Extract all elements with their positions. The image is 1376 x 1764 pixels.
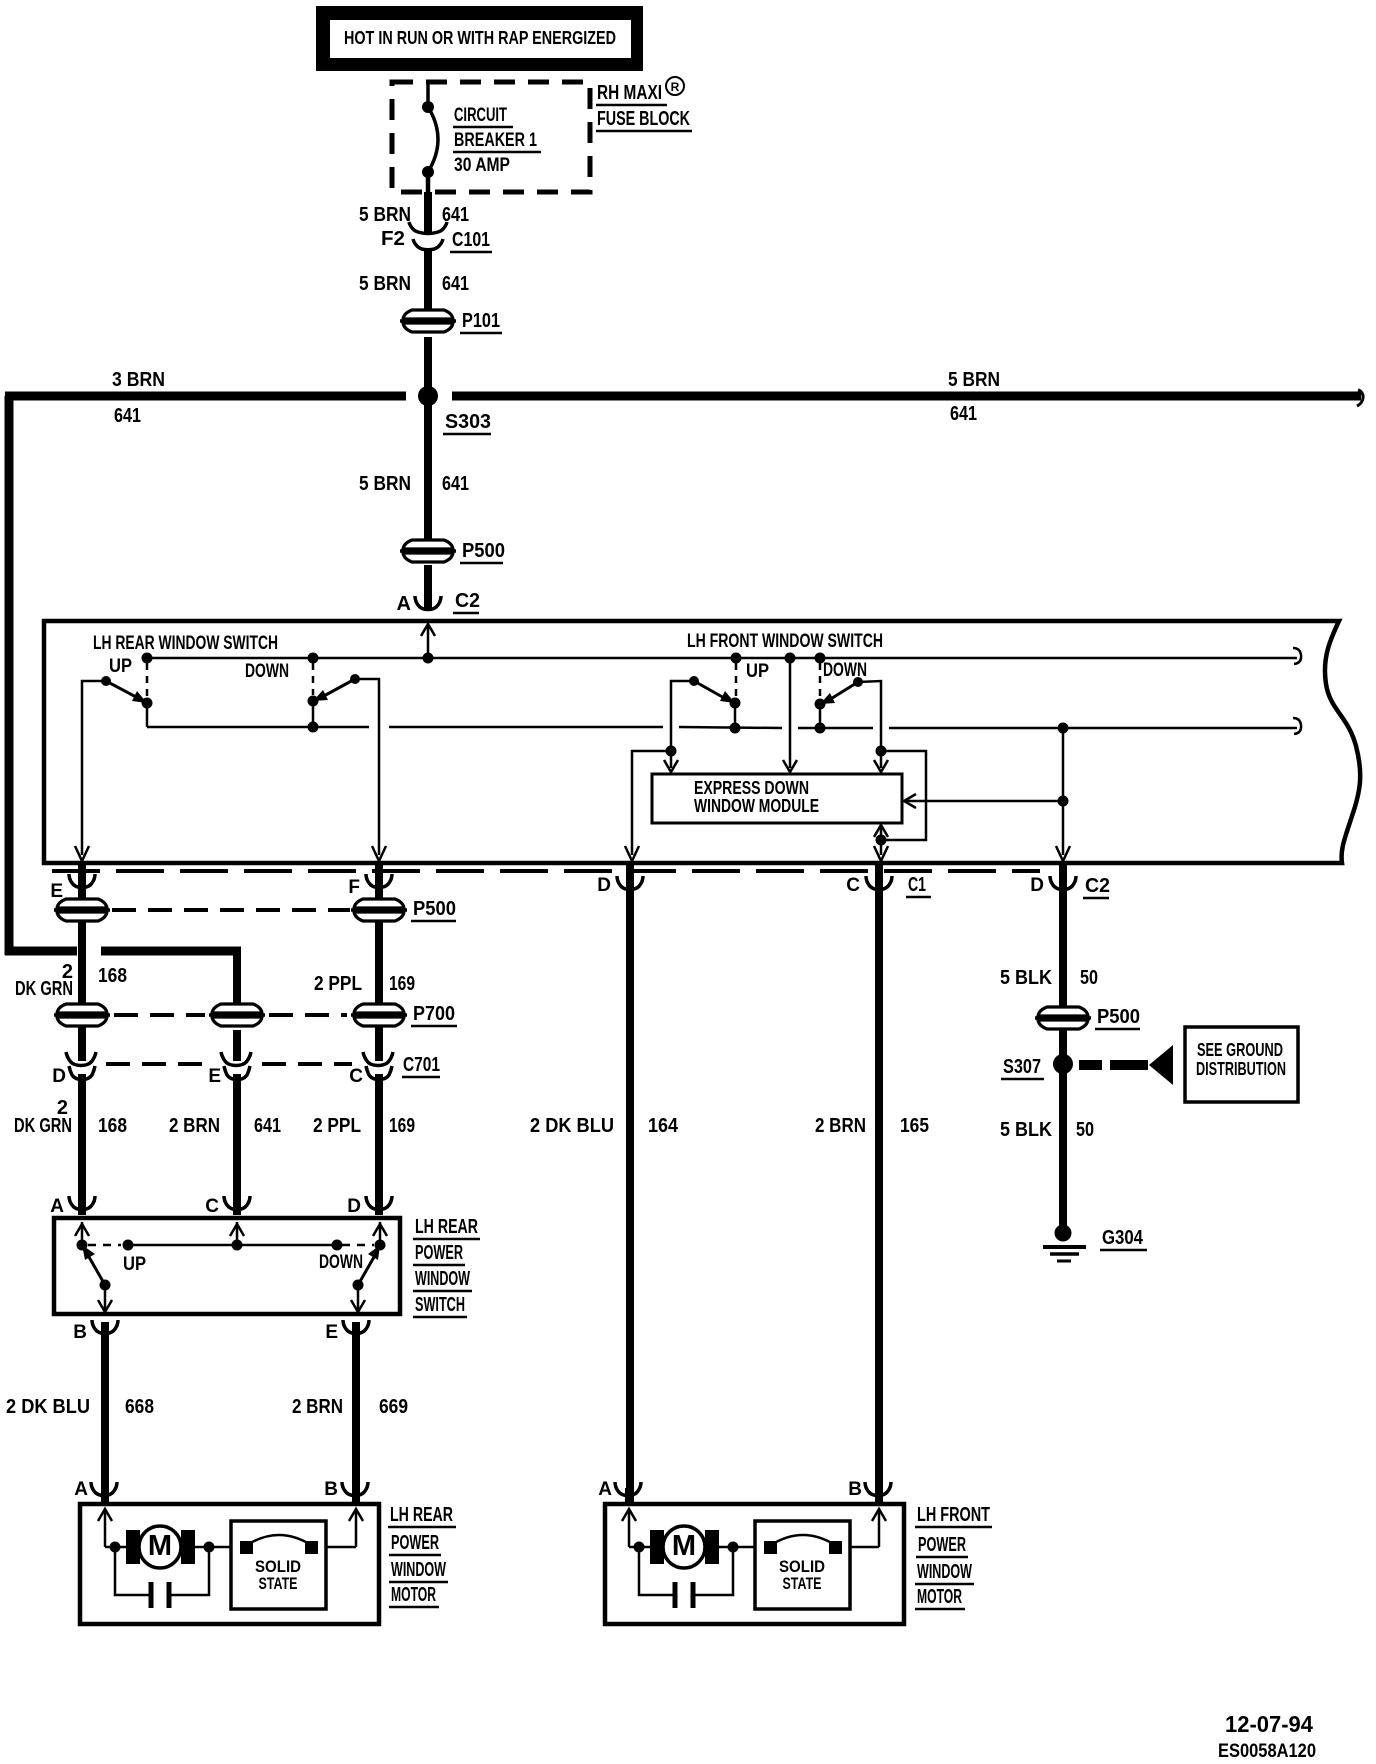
svg-text:POWER: POWER	[918, 1534, 966, 1556]
ground G304	[1055, 1225, 1072, 1242]
connector C2 pin A cup	[415, 596, 441, 610]
svg-text:5 BLK: 5 BLK	[1000, 967, 1052, 989]
node front motor left	[634, 1542, 645, 1553]
svg-text:164: 164	[648, 1115, 679, 1137]
grommet P500	[400, 540, 456, 562]
svg-text:ES0058A120: ES0058A120	[1218, 1741, 1316, 1762]
wire module bottom to C output	[880, 840, 883, 855]
wire solid state to B entry front	[850, 1546, 879, 1549]
svg-text:2 BRN: 2 BRN	[292, 1396, 343, 1418]
svg-text:HOT IN RUN OR WITH RAP ENERGIZ: HOT IN RUN OR WITH RAP ENERGIZED	[344, 28, 616, 48]
wire break hook lower bus	[1293, 718, 1301, 734]
svg-text:E: E	[50, 881, 63, 902]
svg-text:A: A	[50, 1196, 64, 1217]
LH rear window switch UP contact	[82, 656, 153, 855]
entry arrow C	[236, 1222, 239, 1245]
see ground distribution box	[1185, 1027, 1298, 1102]
svg-text:5 BRN: 5 BRN	[359, 473, 411, 495]
connector cup C C1 at box exit	[866, 876, 892, 890]
svg-text:M: M	[148, 1530, 172, 1562]
svg-text:168: 168	[98, 965, 127, 987]
svg-text:50: 50	[1076, 1119, 1094, 1141]
svg-text:641: 641	[254, 1115, 281, 1137]
svg-text:3 BRN: 3 BRN	[112, 369, 165, 391]
svg-text:POWER: POWER	[391, 1532, 439, 1554]
bus wire upper (feed bus)	[147, 657, 1297, 660]
svg-text:DOWN: DOWN	[319, 1252, 363, 1273]
node rear motor left	[110, 1542, 121, 1553]
svg-text:F2: F2	[381, 228, 405, 250]
svg-text:168: 168	[98, 1115, 127, 1137]
svg-text:50: 50	[1080, 967, 1098, 989]
wire solid state to B entry rear	[326, 1546, 356, 1549]
motor M front: armature circle	[663, 1526, 705, 1568]
connector cup A front motor	[615, 1482, 641, 1496]
entry arrow D	[379, 1222, 382, 1245]
dashed connector line below box	[52, 869, 1040, 873]
dashed line P500 row	[112, 908, 350, 912]
connector cup E below rear switch	[343, 1320, 369, 1334]
front motor label	[915, 1504, 992, 1609]
svg-text:C2: C2	[1085, 875, 1110, 897]
solid state box front	[755, 1521, 850, 1609]
node C contact	[232, 1240, 243, 1251]
LH rear window switch DOWN contact	[245, 661, 379, 855]
node bus to right column	[1058, 723, 1069, 734]
module input arrow right	[874, 760, 888, 772]
svg-text:5 BRN: 5 BRN	[948, 369, 1000, 391]
svg-text:LH REAR WINDOW SWITCH: LH REAR WINDOW SWITCH	[93, 633, 278, 654]
bus wire lower (motor bus)	[147, 703, 1297, 728]
svg-text:A: A	[397, 593, 411, 615]
svg-text:F: F	[348, 877, 360, 898]
svg-text:30 AMP: 30 AMP	[454, 155, 510, 176]
wire branch loop right of module	[881, 751, 926, 840]
svg-text:2 DK BLU: 2 DK BLU	[6, 1396, 90, 1418]
wire stubs into rear motor	[101, 1488, 109, 1506]
LH rear power window motor box	[80, 1504, 379, 1624]
svg-text:LH FRONT WINDOW SWITCH: LH FRONT WINDOW SWITCH	[687, 631, 883, 652]
wire D column (164 DK BLU)	[626, 865, 634, 1502]
grommet P500 ground column	[1035, 1007, 1091, 1029]
circuit breaker 1 dashed box	[392, 82, 590, 192]
svg-text:EXPRESS DOWN: EXPRESS DOWN	[694, 778, 809, 798]
svg-text:E: E	[325, 1322, 338, 1343]
node feed-entry	[423, 653, 434, 664]
svg-text:P700: P700	[413, 1003, 455, 1025]
dashed line C701 row	[106, 1062, 352, 1066]
wire right column to C2 output	[1062, 728, 1065, 855]
node right column tee	[1058, 796, 1069, 807]
svg-text:B: B	[848, 1479, 862, 1500]
svg-text:R: R	[671, 80, 680, 94]
module input arrow left	[664, 760, 678, 772]
svg-text:E: E	[208, 1066, 221, 1087]
svg-text:2 BRN: 2 BRN	[815, 1115, 866, 1137]
wire stubs into front motor	[625, 1488, 633, 1506]
svg-text:WINDOW: WINDOW	[917, 1561, 972, 1583]
connector cup C rear switch	[224, 1196, 250, 1210]
svg-text:165: 165	[900, 1115, 929, 1137]
svg-text:P500: P500	[413, 898, 456, 920]
svg-text:G304: G304	[1102, 1227, 1144, 1249]
splice S303	[418, 386, 438, 406]
connector cup D at box exit	[617, 876, 643, 890]
wire 641 left branch down	[5, 396, 14, 955]
grommet P101	[400, 310, 456, 332]
svg-text:12-07-94: 12-07-94	[1225, 1711, 1313, 1737]
connector C701 pin C lower cup	[366, 1066, 392, 1080]
svg-text:669: 669	[379, 1396, 408, 1418]
svg-text:2 BRN: 2 BRN	[169, 1115, 220, 1137]
wire branch to D output	[632, 751, 671, 855]
exit arrow C	[874, 846, 888, 861]
node bus left	[123, 1240, 134, 1251]
connector cup B front motor	[865, 1482, 891, 1496]
svg-text:169: 169	[389, 1115, 415, 1137]
svg-text:641: 641	[950, 403, 977, 425]
svg-text:UP: UP	[109, 656, 132, 677]
connector C701 pin E lower cup	[224, 1066, 250, 1080]
svg-text:C2: C2	[455, 590, 480, 612]
node feed-rear-up	[142, 653, 153, 664]
grommet P700 E column	[54, 1004, 110, 1026]
connector cup B below rear switch	[92, 1320, 118, 1334]
express down window module U1	[652, 774, 902, 823]
grommet P500 E column	[54, 899, 110, 921]
motor M front: brushes	[650, 1530, 664, 1564]
svg-text:P500: P500	[462, 540, 505, 562]
entry arrow A	[81, 1222, 84, 1245]
svg-text:STATE: STATE	[783, 1574, 822, 1593]
connector cup D C2 at box exit	[1050, 876, 1076, 890]
svg-text:A: A	[598, 1479, 612, 1500]
svg-text:5 BRN: 5 BRN	[359, 273, 411, 295]
wire motor to solid state	[195, 1546, 232, 1549]
grommet P700 F column	[351, 1004, 407, 1026]
svg-text:5 BRN: 5 BRN	[359, 204, 411, 226]
wire 641 left branch across	[5, 947, 77, 956]
wire motor to solid state front	[719, 1546, 756, 1549]
svg-text:C: C	[349, 1066, 363, 1087]
solid state terminals rear	[240, 1541, 253, 1554]
rear switch label	[413, 1216, 480, 1317]
svg-text:641: 641	[442, 273, 469, 295]
svg-text:DISTRIBUTION: DISTRIBUTION	[1196, 1059, 1286, 1079]
svg-text:UP: UP	[123, 1254, 146, 1275]
exit arrow D C2	[1056, 846, 1070, 861]
connector cup B rear motor	[342, 1482, 368, 1496]
svg-text:D: D	[597, 875, 611, 896]
node D contact	[375, 1240, 386, 1251]
svg-text:DK GRN: DK GRN	[15, 978, 73, 1000]
wire 641 breaker to C101	[424, 192, 432, 234]
front motor A entry wire	[628, 1509, 631, 1547]
svg-text:RH MAXI: RH MAXI	[597, 82, 662, 104]
svg-text:POWER: POWER	[415, 1242, 463, 1264]
svg-text:169: 169	[389, 973, 415, 995]
circuit breaker 1 element	[422, 82, 438, 194]
exit arrow D	[625, 846, 639, 861]
svg-text:CIRCUIT: CIRCUIT	[454, 105, 507, 126]
connector C101 pin F2	[409, 222, 447, 250]
capacitor front motor	[639, 1547, 673, 1595]
node feed-module	[785, 653, 796, 664]
dashed line P700 row	[114, 1013, 347, 1017]
svg-text:B: B	[73, 1322, 87, 1343]
svg-text:DK GRN: DK GRN	[14, 1115, 72, 1137]
node feed-front-down	[815, 653, 826, 664]
connector C701 pin E upper cup	[221, 1052, 251, 1066]
svg-text:2 PPL: 2 PPL	[313, 1115, 361, 1137]
svg-text:2 DK BLU: 2 DK BLU	[530, 1115, 614, 1137]
RH MAXI fuse block label	[596, 77, 692, 131]
power source label box HOT IN RUN	[316, 6, 643, 71]
node A contact	[77, 1240, 88, 1251]
svg-text:SEE GROUND: SEE GROUND	[1197, 1040, 1283, 1060]
connector cup D rear switch	[366, 1196, 392, 1210]
svg-text:WINDOW: WINDOW	[391, 1559, 446, 1581]
svg-text:MOTOR: MOTOR	[391, 1584, 436, 1606]
node rear motor right	[204, 1542, 215, 1553]
connector C701 pin D lower cup	[69, 1066, 95, 1080]
node front motor right	[728, 1542, 739, 1553]
circuit breaker text	[453, 105, 541, 176]
svg-text:LH REAR: LH REAR	[415, 1216, 478, 1238]
svg-text:C: C	[846, 875, 860, 896]
grommet P700 center column	[209, 1004, 265, 1026]
svg-text:LH FRONT: LH FRONT	[917, 1504, 990, 1526]
node feed-front-up	[731, 653, 742, 664]
rear motor A entry wire	[104, 1509, 107, 1547]
node bus right	[332, 1240, 343, 1251]
rear motor label	[388, 1504, 456, 1607]
svg-text:UP: UP	[746, 661, 769, 682]
svg-text:P500: P500	[1097, 1006, 1140, 1028]
svg-text:WINDOW MODULE: WINDOW MODULE	[694, 796, 819, 816]
svg-text:M: M	[672, 1530, 696, 1562]
svg-text:A: A	[74, 1479, 88, 1500]
connector C701 pin D upper cup	[66, 1052, 96, 1066]
window switch assembly box with torn right edge	[44, 621, 1360, 863]
wire center feed to module	[789, 658, 792, 768]
node front-down branch	[876, 746, 887, 757]
svg-text:LH REAR: LH REAR	[390, 1504, 453, 1526]
svg-text:C101: C101	[452, 229, 490, 251]
svg-text:2 PPL: 2 PPL	[314, 973, 362, 995]
svg-text:DOWN: DOWN	[245, 661, 289, 682]
svg-text:BREAKER 1: BREAKER 1	[454, 130, 537, 151]
svg-text:MOTOR: MOTOR	[917, 1586, 962, 1608]
svg-text:641: 641	[442, 473, 469, 495]
node rear-down to bus	[308, 722, 319, 733]
wire module bottom feedback arrow	[880, 826, 883, 840]
svg-text:B: B	[324, 1479, 338, 1500]
wire E column (168 DK GRN)	[78, 865, 86, 1061]
splice S307	[1053, 1054, 1073, 1074]
solid state terminals front	[764, 1541, 777, 1554]
svg-text:P101: P101	[462, 310, 500, 332]
solid state box rear	[231, 1521, 326, 1609]
wire B column 668	[101, 1322, 109, 1502]
svg-text:D: D	[52, 1066, 66, 1087]
svg-text:D: D	[347, 1196, 361, 1217]
wire 641 P500 to C2	[424, 565, 432, 608]
wire break hook right end	[1357, 390, 1363, 406]
capacitor rear motor	[115, 1547, 149, 1595]
motor M rear: armature circle	[139, 1526, 181, 1568]
connector C701 pin C upper cup	[363, 1052, 393, 1066]
connector cup A rear motor	[91, 1482, 117, 1496]
svg-text:668: 668	[125, 1396, 154, 1418]
svg-text:D: D	[1030, 875, 1044, 896]
dashed wire to ground distribution	[1079, 1060, 1148, 1070]
svg-text:641: 641	[114, 405, 141, 427]
svg-text:C701: C701	[403, 1054, 440, 1076]
svg-text:S307: S307	[1003, 1056, 1041, 1078]
node module bottom	[876, 835, 887, 846]
wire 641 C101 to P101	[424, 249, 432, 309]
wire 641 left branch down to P700	[233, 947, 241, 1010]
svg-text:C1: C1	[908, 874, 926, 896]
svg-text:WINDOW: WINDOW	[415, 1268, 470, 1290]
connector cup F at box exit	[366, 874, 392, 888]
grommet P500 F column	[351, 899, 407, 921]
LH front window switch DOWN contact	[815, 660, 882, 768]
wire center column 641 below P700	[233, 1030, 241, 1061]
wire C2 column (50 BLK)	[1059, 865, 1067, 1235]
svg-text:5 BLK: 5 BLK	[1000, 1119, 1052, 1141]
svg-text:SWITCH: SWITCH	[415, 1294, 465, 1316]
rear switch internal bus	[88, 1244, 121, 1247]
connector cup E at box exit	[69, 874, 95, 888]
wire 641 P101 to S303	[424, 337, 432, 396]
connector cup A rear switch	[69, 1196, 95, 1210]
exit arrow E	[75, 846, 89, 861]
svg-text:C: C	[205, 1196, 219, 1217]
exit arrow F	[372, 846, 386, 861]
node feed-rear-down	[308, 653, 319, 664]
main feed wire 641 horizontal	[5, 392, 406, 401]
motor M rear: brushes	[126, 1530, 140, 1564]
arrowhead to see ground distribution	[1149, 1045, 1173, 1085]
svg-text:S303: S303	[445, 411, 491, 433]
svg-text:FUSE BLOCK: FUSE BLOCK	[597, 108, 690, 130]
wire break hook upper bus	[1293, 648, 1301, 664]
node front-up branch	[666, 746, 677, 757]
wire E column 669	[352, 1322, 360, 1502]
wire module right side feed	[906, 800, 1063, 803]
wire C column (165 BRN)	[875, 865, 883, 1502]
LH front power window motor box	[605, 1504, 904, 1624]
svg-text:STATE: STATE	[259, 1574, 298, 1593]
LH rear power window switch box	[54, 1218, 400, 1314]
wire F column (169 PPL)	[375, 865, 383, 1061]
wire 641 S303 to P500	[424, 400, 432, 540]
LH front window switch UP contact	[671, 661, 769, 768]
wire C2 entry into box	[427, 624, 430, 658]
